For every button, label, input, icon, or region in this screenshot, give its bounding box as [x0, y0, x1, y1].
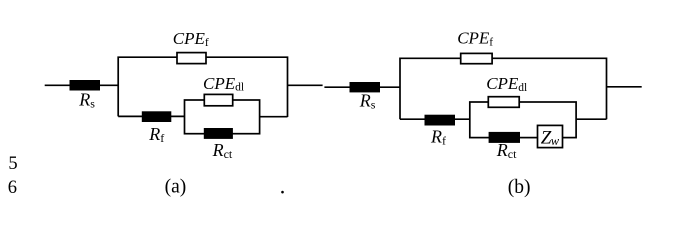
svg-text:CPEf: CPEf — [457, 29, 493, 49]
svg-text:5: 5 — [8, 154, 17, 174]
svg-text:Rct: Rct — [496, 140, 517, 161]
svg-text:CPEdl: CPEdl — [203, 74, 244, 94]
svg-text:Rs: Rs — [78, 90, 95, 111]
svg-text:Rf: Rf — [430, 127, 446, 148]
svg-text:(b): (b) — [508, 177, 531, 198]
svg-text:CPEdl: CPEdl — [486, 74, 527, 94]
svg-text:6: 6 — [8, 178, 17, 198]
svg-text:.: . — [280, 174, 286, 199]
svg-text:Rf: Rf — [148, 124, 164, 145]
svg-text:(a): (a) — [165, 176, 187, 197]
svg-text:Rs: Rs — [359, 91, 376, 112]
svg-text:CPEf: CPEf — [173, 29, 209, 49]
svg-text:Rct: Rct — [212, 140, 233, 161]
